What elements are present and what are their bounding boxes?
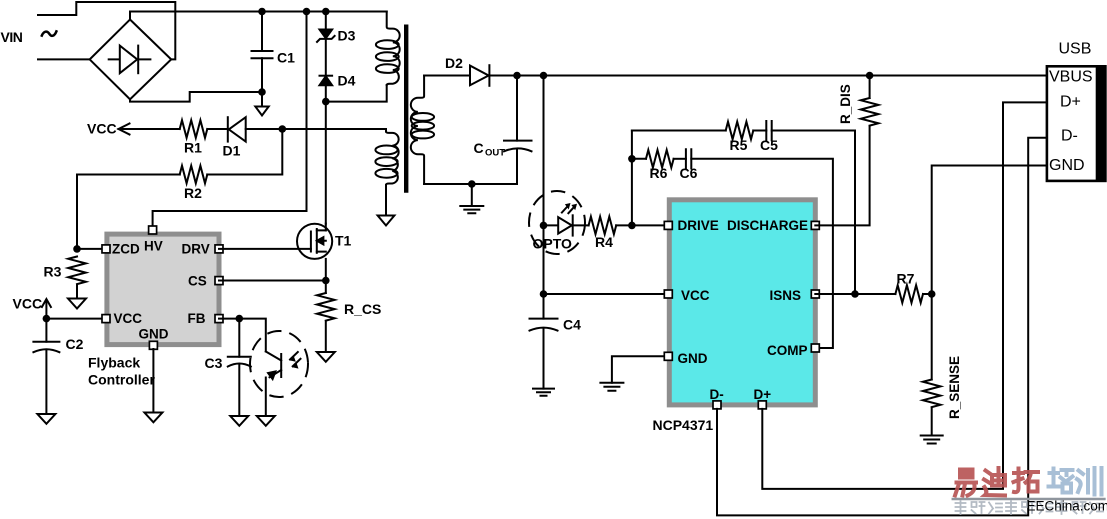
junction C_OUT top — [513, 72, 521, 80]
junction R3 / ZCD — [73, 245, 81, 253]
junction VCC / C2 — [43, 315, 51, 323]
svg-text:VCC: VCC — [87, 121, 117, 137]
ground below secondary (IEC) — [460, 184, 483, 213]
wire R_SENSE to ground — [931, 408, 933, 436]
svg-text:HV: HV — [144, 239, 163, 254]
pin COMP square — [811, 344, 819, 352]
svg-text:R4: R4 — [595, 234, 613, 250]
pin DISCHARGE square — [811, 221, 819, 229]
wire R1 to D1 — [207, 128, 228, 130]
pin FB square — [215, 315, 223, 323]
wire VCC node to VCC pin — [46, 318, 107, 320]
diode D2 — [470, 65, 489, 86]
junction clamp / primary bottom / T1 drain — [322, 98, 330, 106]
junction T1 source / R_CS — [322, 277, 330, 285]
wire GND pin to ground — [612, 356, 669, 383]
svg-text:R1: R1 — [184, 140, 202, 156]
wire R5 to C5 — [753, 130, 766, 132]
svg-text:R7: R7 — [897, 271, 915, 287]
diode D1 — [228, 117, 246, 141]
wire D2 to VBUS rail — [489, 75, 1047, 77]
wire DRIVE node up to compensation branches — [631, 131, 633, 226]
wire CS pin to source junction — [219, 280, 326, 282]
junction VCC / C4 — [540, 290, 548, 298]
pin D+ square — [758, 401, 766, 409]
wire C5 to ISNS column — [772, 131, 855, 295]
ground below aux winding — [378, 216, 395, 226]
wire VBUS branch down to LED/VCC — [543, 76, 545, 295]
wire VCC pin to VBUS branch — [544, 293, 670, 295]
svg-text:OPTO: OPTO — [533, 236, 573, 252]
pin HV square — [149, 226, 157, 234]
wire C6 to COMP — [691, 159, 833, 348]
watermark red glyphs yi di tuo — [955, 468, 1038, 496]
resistor R_DIS — [861, 76, 879, 126]
junction R6 branch — [628, 155, 636, 163]
wire GND pin to ground — [152, 349, 154, 413]
ground below GND pin — [144, 413, 162, 423]
capacitor C5 — [766, 121, 771, 140]
ground below C2 — [37, 414, 55, 424]
svg-text:GND: GND — [1049, 157, 1085, 174]
svg-text:ISNS: ISNS — [770, 288, 802, 303]
watermark small gray glyph row — [956, 501, 1104, 514]
svg-text:DRV: DRV — [182, 242, 210, 257]
svg-text:VCC: VCC — [114, 311, 143, 326]
controller NCP4371 U2 body — [669, 200, 815, 405]
opto light arrows into transistor — [289, 352, 300, 369]
wire VCC arrow to R1 — [119, 128, 180, 130]
USB connector right bar — [1096, 66, 1106, 181]
resistor R_CS — [317, 293, 335, 321]
junction DRIVE node — [628, 222, 636, 230]
pin ZCD square — [102, 245, 110, 253]
wire R_DIS to DISCHARGE pin — [815, 126, 869, 225]
svg-text:C1: C1 — [277, 50, 295, 66]
resistor R4 — [589, 217, 617, 235]
svg-text:R6: R6 — [650, 165, 668, 181]
svg-text:ZCD: ZCD — [112, 242, 140, 257]
wire VIN top to bridge AC1 — [38, 2, 175, 59]
svg-text:C5: C5 — [760, 137, 778, 153]
wire junction to R_SENSE — [931, 294, 933, 380]
ground below U2 GND (IEC) — [600, 383, 623, 391]
junction ISNS / C5 branch — [851, 290, 859, 298]
svg-text:D1: D1 — [223, 143, 241, 159]
resistor R5 — [726, 122, 754, 140]
wire ISNS to R7 — [815, 293, 895, 295]
junction C1 top — [258, 8, 266, 16]
pin GND square — [664, 352, 672, 360]
svg-text:R3: R3 — [44, 264, 62, 280]
pin VCC square — [664, 290, 672, 298]
svg-text:GND: GND — [139, 327, 169, 342]
wire R_CS to ground — [325, 321, 327, 352]
wire R6 to C6 — [674, 158, 686, 160]
resistor R3 — [68, 257, 86, 285]
junction secondary ground — [468, 180, 476, 188]
wire clamp junction to primary bottom — [326, 85, 387, 102]
transformer secondary winding bumps — [411, 76, 424, 185]
ground below R_SENSE (IEC) — [921, 436, 943, 444]
svg-text:GND: GND — [678, 351, 708, 366]
pin DRV square — [215, 245, 223, 253]
svg-text:USB: USB — [1059, 41, 1092, 58]
transformer primary winding bumps — [387, 12, 400, 86]
svg-text:R_DIS: R_DIS — [838, 84, 853, 124]
VCC arrow head — [119, 124, 130, 135]
junction LED anode — [540, 222, 548, 230]
wire R4 to DRIVE — [616, 224, 669, 226]
svg-text:Flyback: Flyback — [88, 355, 140, 371]
junction VBUS branch — [540, 72, 548, 80]
svg-text:D4: D4 — [338, 73, 356, 89]
pin D- square — [713, 401, 721, 409]
svg-text:D2: D2 — [445, 55, 463, 71]
watermark separator line — [953, 498, 1105, 501]
resistor R1 — [180, 120, 208, 138]
capacitor C4 — [530, 294, 558, 389]
svg-text:D-: D- — [710, 387, 724, 402]
transistor T1 circle — [297, 224, 332, 259]
junction aux winding node — [279, 125, 287, 133]
wire D4 to clamp junction — [325, 85, 327, 101]
junction D3 top — [322, 8, 330, 16]
wire R6 branch left segment — [632, 158, 646, 160]
resistor R2 — [180, 166, 208, 184]
pin GND square — [149, 341, 157, 349]
junction C1 bottom — [258, 88, 266, 96]
wire top rail to HV pin — [153, 12, 307, 230]
wire junction to aux winding top — [282, 129, 386, 132]
svg-text:DISCHARGE: DISCHARGE — [727, 218, 808, 233]
svg-text:R5: R5 — [730, 137, 748, 153]
wire DRV to T1 gate — [219, 248, 311, 250]
junction R_DIS top on VBUS rail — [866, 72, 874, 80]
capacitor C6 — [686, 149, 691, 168]
pin CS square — [215, 277, 223, 285]
wire R3 to ground — [76, 285, 78, 299]
capacitor C1 — [252, 12, 273, 93]
ground below C3 — [230, 416, 248, 426]
wire T1 source to junction — [325, 259, 327, 281]
label Flyback Controller — [88, 355, 155, 388]
transformer primary winding loops — [376, 40, 399, 73]
AC tilde symbol — [42, 31, 57, 35]
svg-text:T1: T1 — [335, 233, 352, 249]
capacitor C_OUT — [424, 76, 531, 185]
transformer aux winding bumps — [386, 132, 399, 186]
svg-text:VCC: VCC — [13, 296, 43, 312]
svg-text:D+: D+ — [1060, 94, 1081, 111]
label C_OUT — [474, 140, 506, 159]
bridge rectifier BR1 diamond — [90, 20, 172, 100]
svg-text:D+: D+ — [754, 387, 772, 402]
svg-text:R_SENSE: R_SENSE — [947, 356, 962, 419]
wire ZCD stub — [77, 248, 107, 250]
wire bridge DC+ to top rail — [130, 12, 387, 20]
USB connector body — [1047, 66, 1106, 181]
svg-text:FB: FB — [188, 311, 206, 326]
pin DRIVE square — [664, 221, 672, 229]
svg-text:D3: D3 — [338, 28, 356, 44]
svg-text:R2: R2 — [184, 185, 202, 201]
wire CS junction to R_CS — [325, 281, 327, 294]
svg-text:DRIVE: DRIVE — [678, 218, 719, 233]
optocoupler phototransistor — [266, 352, 281, 417]
wire USB D- route — [717, 138, 1047, 516]
pin VCC square — [102, 315, 110, 323]
svg-text:D-: D- — [1061, 128, 1078, 145]
pin ISNS square — [811, 290, 819, 298]
junction R7 / USB GND / R_SENSE — [928, 290, 936, 298]
wire R5 branch left segment — [632, 130, 726, 132]
diode D4 — [320, 76, 333, 86]
svg-text:R_CS: R_CS — [344, 301, 381, 317]
svg-text:C3: C3 — [205, 355, 223, 371]
svg-text:CS: CS — [188, 274, 207, 289]
wire bridge DC- to C1 bottom — [130, 92, 262, 102]
ground below opto emitter — [257, 416, 275, 426]
svg-text:NCP4371: NCP4371 — [653, 417, 714, 433]
optocoupler transistor dashed ellipse — [250, 331, 308, 397]
junction HV branch on top rail — [303, 8, 311, 16]
wire junction down to R2 — [207, 129, 282, 175]
wire secondary top to D2 — [424, 75, 470, 77]
wire D3 to D4 — [325, 40, 327, 76]
wire FB pin to opto collector — [219, 319, 266, 352]
wire VIN bottom to bridge AC2 — [38, 58, 90, 60]
transformer core — [404, 27, 408, 191]
resistor R7 — [895, 285, 923, 303]
resistor R6 — [646, 150, 674, 168]
ground below C4 (IEC) — [533, 389, 554, 396]
wire USB GND column — [932, 166, 1047, 295]
transformer aux winding loops — [375, 146, 397, 178]
svg-text:EEChina.com: EEChina.com — [1027, 499, 1107, 514]
wire aux winding bottom — [385, 185, 387, 216]
wire USB D+ route — [762, 102, 1047, 489]
svg-text:VIN: VIN — [1, 29, 23, 45]
svg-text:C6: C6 — [680, 165, 698, 181]
svg-text:C2: C2 — [66, 336, 84, 352]
capacitor C2 — [33, 319, 59, 414]
wire rail to D3 — [325, 12, 327, 30]
flyback controller U1 body — [107, 234, 219, 345]
svg-text:VCC: VCC — [681, 288, 710, 303]
bridge rectifier internal diode — [109, 46, 151, 74]
svg-text:OUT: OUT — [485, 148, 505, 159]
svg-text:VBUS: VBUS — [1049, 69, 1093, 86]
ground below C1 — [255, 92, 268, 116]
opto LED light arrows — [562, 203, 577, 213]
VCC up arrow — [42, 299, 51, 319]
opto LED diode — [544, 215, 589, 235]
junction FB / C3 — [236, 315, 244, 323]
transformer secondary winding loops — [412, 113, 434, 138]
wire D1 to aux junction — [246, 128, 283, 130]
ground below R3 — [68, 299, 86, 309]
zener diode D3 — [317, 30, 335, 42]
wire R2 left to ZCD column — [77, 175, 180, 249]
resistor R_SENSE — [923, 380, 941, 408]
svg-text:COMP: COMP — [767, 343, 808, 358]
wire T1 drain into circle — [325, 224, 327, 231]
optocoupler LED dashed ellipse — [529, 191, 585, 254]
transistor T1 internals — [311, 229, 326, 253]
wire T1 drain vertical — [325, 102, 327, 224]
svg-text:Controller: Controller — [88, 372, 155, 388]
ground below R_CS — [317, 352, 335, 362]
wire R7 to GND column — [923, 293, 932, 295]
capacitor C3 — [228, 319, 251, 416]
watermark blue glyphs pei xun — [1049, 468, 1102, 495]
svg-text:C: C — [474, 140, 484, 156]
svg-text:C4: C4 — [563, 317, 581, 333]
